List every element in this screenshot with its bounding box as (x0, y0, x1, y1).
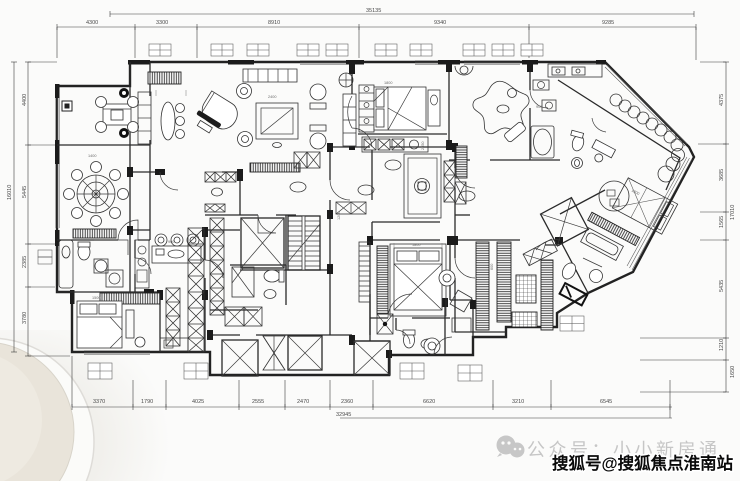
balcony plant 10 (666, 157, 680, 171)
junction block bed2 right low (446, 140, 452, 150)
living TV cabinet (243, 69, 297, 82)
photo outer circle (0, 338, 94, 481)
door arc corridor mid (258, 215, 276, 233)
bed4 bottom wall y318 (370, 317, 450, 319)
photo inner disc (0, 342, 74, 481)
tatami medallion (415, 179, 430, 194)
kitchen cabinet strip C (210, 218, 224, 315)
svg-text:900: 900 (536, 105, 542, 109)
study chair SE (128, 122, 139, 133)
wall black segment top right (522, 60, 538, 65)
dining chairs ring (64, 162, 129, 227)
small bath boxes above stairs (294, 152, 307, 168)
top dim line 2 (57, 26, 696, 28)
hall shaft rotated (541, 198, 589, 246)
bed4 stool (439, 270, 455, 286)
kitchen left wall x205 (204, 230, 206, 352)
door arc LL bath (135, 258, 151, 274)
kitchen counter bottom (160, 338, 188, 351)
door arc bath mid (396, 330, 410, 344)
master wardrobe combs (588, 212, 640, 245)
svg-text:3370: 3370 (93, 399, 105, 405)
lobby wall x330 (329, 215, 331, 335)
guest bath wall (230, 265, 286, 305)
living chair SW (238, 132, 253, 147)
piano room top cabinet (148, 72, 181, 84)
bottom dim ticks (72, 356, 670, 418)
outer wall (57, 62, 694, 375)
bed2 dresser (428, 90, 440, 126)
kitchen stool 2 (171, 234, 183, 246)
foyer wall x372 (371, 150, 373, 240)
junction block kitchen bottom (202, 290, 208, 300)
AC box 9 (492, 44, 514, 56)
junction block bottom y355 (386, 350, 392, 358)
svg-text:4025: 4025 (192, 399, 204, 405)
door arc bath top (530, 90, 548, 108)
closet comb strip 1 (476, 242, 489, 330)
LL bed bench (126, 310, 134, 338)
master bed rotated (612, 178, 677, 234)
stairs left wall x286 (285, 215, 287, 270)
left dim line total (13, 62, 15, 352)
piano room chair 2 (176, 117, 185, 126)
svg-text:1400: 1400 (88, 154, 96, 158)
core mid wall y310 (210, 309, 258, 311)
hall cabinet bottom (205, 204, 225, 212)
junction block living wall top (349, 62, 355, 74)
side cabinet below (455, 182, 466, 204)
LL bath tub (59, 240, 73, 288)
junction block foyer low (327, 210, 333, 219)
bed2 fan (339, 73, 353, 87)
AC box 10 (521, 44, 543, 56)
piano room oval table (161, 102, 175, 140)
svg-text:6545: 6545 (600, 399, 612, 405)
living chair SE (310, 133, 326, 149)
top dim ticks (57, 11, 696, 60)
guest bath sink (264, 290, 276, 299)
bath top-right wall x530 (529, 62, 531, 160)
bath toilet top (571, 134, 586, 152)
balcony plant 6 (655, 124, 667, 136)
study chair NW (96, 97, 107, 108)
legend block wing (560, 316, 584, 331)
lower-left bedroom right wall x160 (159, 292, 161, 352)
AC box 1 (149, 44, 171, 56)
AC box 4 (297, 44, 319, 56)
living media strip (250, 163, 300, 172)
balcony inner wall (558, 80, 680, 190)
door arc dining (118, 220, 138, 240)
window balcony diagonal (605, 65, 687, 146)
wall black segment top-left (128, 60, 150, 65)
wing bath sink (590, 270, 603, 283)
study chair SW (96, 122, 107, 133)
wall black segment left bottom (70, 290, 75, 304)
corridor mid wall y215 right (455, 214, 470, 216)
door arc bed4 (388, 294, 412, 318)
bed2 wardrobe column (359, 85, 374, 132)
closet left wall x455 (454, 240, 456, 332)
door arc foyer (330, 180, 350, 200)
AC box 6 (375, 44, 397, 56)
svg-text:600: 600 (490, 264, 494, 270)
balcony plant 7 (664, 131, 676, 143)
svg-text:900: 900 (168, 240, 174, 244)
living chair NW (237, 84, 252, 99)
svg-text:17010: 17010 (730, 205, 736, 220)
master tub dark (560, 283, 588, 305)
svg-text:3685: 3685 (719, 169, 725, 181)
svg-text:2400: 2400 (268, 95, 276, 99)
wall black segment top living (228, 60, 254, 65)
foyer wall x330 (329, 147, 331, 215)
svg-text:8910: 8910 (268, 20, 280, 26)
master round chair (599, 181, 629, 211)
niche semicircle (455, 66, 473, 75)
kitchen cabinet strip A (166, 288, 180, 346)
radiator comb strip (456, 146, 467, 178)
junction block bottom bath (442, 298, 448, 307)
bowtie column (263, 336, 285, 370)
photo inner disc highlight (0, 352, 42, 481)
junction block closet top (452, 236, 458, 245)
window wing diagonal (627, 157, 692, 270)
wechat icon (497, 436, 525, 458)
wall black segment top mid (438, 60, 460, 65)
svg-text:2360: 2360 (341, 399, 353, 405)
door arc closet (455, 258, 475, 278)
junction block core mid (349, 335, 355, 345)
svg-text:1500: 1500 (92, 296, 100, 300)
bath mid walls (396, 300, 473, 355)
bath door arc (592, 118, 606, 132)
junction block foyer x330 (327, 143, 333, 152)
closet bottom grid table (512, 312, 537, 327)
window top wall bed3 (464, 61, 520, 64)
svg-text:6620: 6620 (423, 399, 435, 405)
tatami table (404, 154, 441, 218)
left dim line 2 (27, 62, 29, 356)
svg-text:搜狐号@搜狐焦点淮南站: 搜狐号@搜狐焦点淮南站 (552, 453, 734, 473)
study cabinet strip (138, 92, 151, 144)
mid bath sink (421, 339, 435, 349)
elevator D (241, 218, 284, 268)
svg-text:3780: 3780 (22, 312, 28, 324)
master dresser (587, 140, 615, 167)
study cabinet knob bottom (119, 128, 129, 138)
balcony plant 9 (672, 149, 685, 162)
wall black segment left wing top (55, 84, 60, 98)
hall wall x240 (239, 172, 241, 215)
window left wing dining (56, 164, 59, 228)
entry door arc (434, 337, 452, 355)
right dim ticks (640, 62, 729, 392)
lower-left bath top wall y292 (57, 291, 160, 293)
window top wall bed2 (415, 61, 438, 64)
corridor top wall y172 (130, 171, 240, 173)
right dim line (725, 62, 727, 392)
guest bath shower (232, 267, 254, 297)
dining bottom wall y240 (57, 239, 150, 241)
study chair NE (128, 97, 139, 108)
top dim line total (110, 13, 694, 15)
svg-text:4375: 4375 (719, 94, 725, 106)
AC box 3 (247, 44, 269, 56)
hall diag cabinet (523, 239, 557, 266)
junction block bath x530 (527, 62, 533, 72)
bed4 canopy (390, 244, 446, 316)
svg-text:3210: 3210 (512, 399, 524, 405)
balcony plant big (658, 166, 674, 182)
mid bath shower (377, 314, 393, 334)
svg-text:1800: 1800 (412, 243, 420, 247)
svg-text:9340: 9340 (434, 20, 446, 26)
X-box pair (225, 307, 244, 326)
svg-text:2385: 2385 (22, 256, 28, 268)
bath bottom wall y160 (449, 159, 560, 161)
inner tick marks bed4 (394, 243, 442, 248)
AC box 2 (211, 44, 233, 56)
junction block wing dining (127, 226, 133, 235)
living room right wall x352 (351, 62, 353, 147)
svg-text:4400: 4400 (22, 94, 28, 106)
svg-text:2555: 2555 (252, 399, 264, 405)
junction block lobby (327, 264, 333, 274)
foyer rug ellipse 3 (385, 160, 401, 170)
junction block bed2 right top (446, 62, 452, 72)
hall cabinet top (205, 172, 236, 182)
utility room sink (424, 338, 440, 354)
junction block closet-wing (555, 237, 563, 244)
balcony plant 8 (671, 139, 683, 151)
svg-text:1650: 1650 (730, 366, 736, 378)
junction block hall x240 (237, 169, 243, 181)
door arc living right (348, 96, 352, 128)
svg-text:1565: 1565 (719, 216, 725, 228)
svg-text:1800: 1800 (384, 81, 392, 85)
lower-left bath right wall x135 (134, 240, 136, 292)
wing inner wall rotated (560, 190, 605, 293)
closet island (516, 275, 536, 303)
legend block 4 (458, 365, 482, 381)
door arc bed2 (352, 128, 372, 147)
junction block kitchen top (202, 227, 208, 237)
living long sofa (343, 94, 356, 146)
junction block bed4 right (447, 236, 453, 245)
wall black segment left wing mid (55, 140, 60, 164)
grille lobby (359, 242, 370, 302)
svg-text:5435: 5435 (719, 280, 725, 292)
legend block 1 (88, 363, 112, 379)
study window box (62, 101, 72, 111)
living chair NE (310, 84, 326, 100)
kitchen stool 1 (155, 234, 167, 246)
svg-text:2850: 2850 (421, 142, 425, 150)
door arc wing bath (536, 240, 560, 250)
tatami X cabinet (444, 161, 455, 202)
corridor rug ellipse 1 (290, 182, 306, 192)
dining round table (77, 175, 115, 213)
bed4 left wall x370 (369, 240, 371, 335)
photo corner background bottom-left (0, 0, 1, 1)
piano room chair 1 (176, 104, 185, 113)
left dim ticks (11, 62, 70, 356)
bed4 bed (394, 248, 442, 310)
amoeba rug (473, 81, 529, 133)
balcony plant 1 (610, 94, 622, 106)
svg-text:35135: 35135 (366, 8, 381, 14)
closet top wall y240 (370, 240, 560, 245)
door arc piano-corridor (160, 172, 178, 190)
kitchen stool 3 (187, 234, 199, 246)
LL bedroom wardrobe (100, 293, 160, 304)
wall black segment top bed2 (346, 60, 364, 65)
elevator B (288, 336, 322, 370)
kitchen island (152, 246, 201, 263)
bed2 right wall x449 (448, 62, 450, 147)
wing second wall x150 (149, 62, 151, 240)
tatami right wall x455 (454, 150, 456, 240)
corridor rug ellipse 2 (358, 185, 374, 195)
bath tub top (531, 126, 554, 158)
hall deco ellipse (212, 188, 223, 196)
bed4 right wall x450 (449, 240, 451, 300)
master tub (581, 228, 624, 261)
core top wall y335 (210, 335, 390, 341)
wing room divider y145 (57, 144, 150, 146)
bed2 bottom wall y147 (330, 146, 455, 148)
bed4 wardrobe strip (377, 246, 388, 314)
svg-text:2470: 2470 (297, 399, 309, 405)
stairs (288, 216, 320, 270)
LL bedroom stool (135, 337, 145, 347)
window bottom LL bedroom (84, 351, 150, 354)
hall rug ellipse (459, 191, 475, 201)
kitchenette counter (362, 137, 428, 152)
junction block LL bed (157, 290, 163, 300)
kitchen top wall y230 (130, 229, 240, 231)
legend block 3 (400, 363, 424, 379)
study cabinet knob top (119, 88, 129, 98)
door arc kitchen (205, 260, 223, 278)
wing top step wall (129, 62, 131, 86)
lobby wall x352 (369, 294, 371, 341)
svg-text:5445: 5445 (22, 186, 28, 198)
bottom dim line 2 (340, 417, 672, 419)
svg-text:9285: 9285 (602, 20, 614, 26)
wing bath partition (583, 258, 602, 267)
AC box 5 (326, 44, 348, 56)
kitchen cabinet strip B (188, 228, 204, 352)
junction block corridor left (155, 169, 165, 175)
dining sideboard (73, 229, 116, 238)
bath sink boxes (533, 80, 549, 90)
LL bed (77, 301, 122, 348)
closet comb strip 3 (541, 260, 553, 330)
balcony plant 2 (619, 100, 631, 112)
bed4 tilted chair (450, 290, 472, 312)
svg-text:32945: 32945 (336, 412, 351, 418)
LL bath toilet (78, 244, 90, 260)
LL bath sink (95, 260, 107, 272)
window top wall living (300, 61, 346, 64)
inner dim master (631, 189, 640, 197)
chaise (503, 121, 526, 143)
junction block wing low (144, 289, 154, 295)
utility counter (452, 318, 471, 332)
junction block entry (470, 300, 476, 309)
window left wing study (56, 98, 59, 140)
LL bath counter (94, 240, 128, 255)
corridor shoe cabinet (336, 202, 366, 214)
elevator A (222, 340, 258, 376)
bed2 bed (374, 87, 426, 130)
piano room chair 3 (176, 130, 185, 139)
junction block wing-main (127, 167, 133, 177)
closet bottom wall y332 (455, 331, 506, 333)
AC box 7 (410, 44, 432, 56)
junction block living wall mid (349, 140, 355, 150)
svg-text:1210: 1210 (719, 339, 725, 351)
living rug (256, 103, 298, 139)
junction block bed4 top (367, 236, 373, 245)
balcony plant 5 (646, 118, 658, 130)
inner tick marks piano (156, 90, 186, 96)
tatami room bottom y222 (372, 221, 440, 223)
wing right wall (129, 86, 131, 292)
kitchen counter left (135, 240, 149, 288)
door arc tatami (455, 168, 475, 188)
left tiny legend block (38, 250, 52, 264)
balcony plant 4 (637, 112, 649, 124)
study table (103, 104, 131, 125)
junction block core left (207, 330, 213, 340)
wall black segment left wing low (55, 230, 60, 246)
wall black segment top end (596, 60, 606, 65)
bottom dim line (72, 406, 672, 408)
svg-text:3300: 3300 (156, 20, 168, 26)
LL bath washer (106, 270, 123, 287)
legend block 2 (184, 363, 208, 379)
guest bath toilet (264, 270, 280, 282)
balcony plant 3 (628, 106, 640, 118)
elevator C (354, 341, 390, 375)
wing bath toilet (560, 261, 579, 282)
closet comb strip 2 (497, 242, 511, 322)
junction block tatami x455 (452, 143, 458, 152)
grand piano (191, 90, 242, 141)
svg-text:4300: 4300 (86, 20, 98, 26)
stairs bottom wall y270 (240, 269, 330, 271)
svg-text:1790: 1790 (141, 399, 153, 405)
bath bidet (572, 158, 583, 169)
svg-text:1200: 1200 (337, 212, 341, 220)
mid bath toilet (404, 332, 415, 348)
corridor bottom wall y215 (205, 214, 296, 216)
bed2 bottom wall (358, 133, 447, 135)
bath sink counter (548, 64, 602, 77)
svg-text:16010: 16010 (7, 185, 13, 200)
AC box 8 (463, 44, 485, 56)
bath shelf box (542, 100, 556, 111)
